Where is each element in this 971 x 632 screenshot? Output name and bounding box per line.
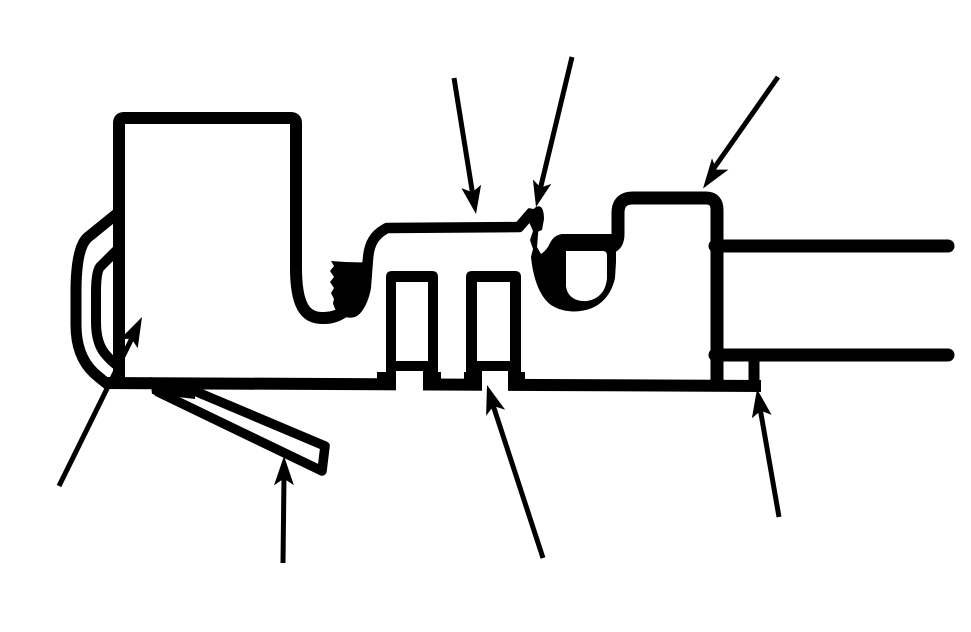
main upper body outline: left wall, top, right wall, U-turn, rise to tabletop, tabletop to tip: [119, 118, 361, 387]
lower right rail: [715, 349, 948, 362]
weld blob 1 with jagged hatch edge: [330, 261, 373, 318]
strip-baseline merge blob: [150, 377, 195, 399]
pocket white window: [566, 251, 607, 301]
arrow 4: [59, 317, 142, 486]
diagonal strip lever: [158, 387, 325, 472]
arrow 1: [454, 78, 481, 214]
notch step vertical: [749, 358, 760, 389]
leg 2 inner window: [477, 282, 510, 361]
leg 1 bottom notch: [396, 371, 423, 393]
hook outer arc: [76, 212, 119, 386]
hat bump outline: [611, 198, 717, 388]
leg 1 foot flares: [377, 372, 396, 390]
arrow 7: [752, 389, 779, 517]
leg 1 body: [386, 271, 438, 390]
arrow 6: [486, 385, 543, 558]
leg 1 inner window: [396, 282, 428, 361]
upper right rail: [715, 240, 948, 253]
leg 2 foot flares: [464, 372, 482, 390]
table tip curl: [531, 206, 544, 232]
arrow 2: [533, 57, 572, 207]
right middle piece: table right wall, weld blob 2, second U, pocket line: [528, 208, 616, 311]
leg 2 body: [466, 271, 521, 390]
rise line to tabletop and tabletop: [361, 212, 532, 292]
leg 2 bottom notch: [482, 371, 508, 393]
arrow 5: [274, 456, 294, 563]
baseline: [104, 383, 761, 386]
arrow 3: [703, 77, 778, 189]
hook inner arc: [96, 249, 121, 368]
